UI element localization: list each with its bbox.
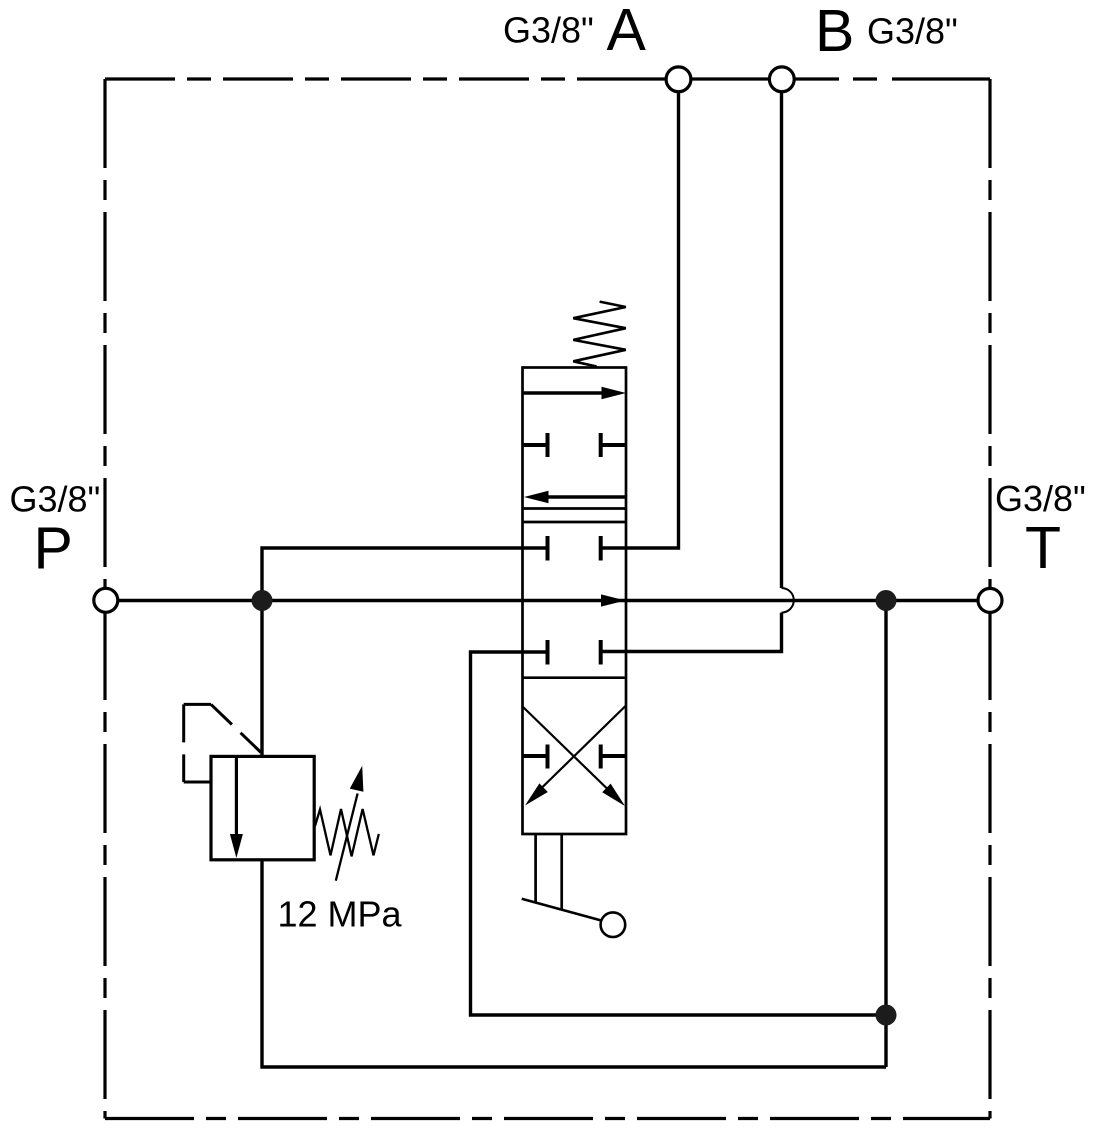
valve position2 through arrow head <box>601 594 626 606</box>
svg-text:G3/8": G3/8" <box>503 10 594 51</box>
directional valve body <box>523 368 627 835</box>
svg-text:A: A <box>607 0 647 63</box>
svg-text:G3/8": G3/8" <box>995 478 1086 519</box>
valve position3 blocked port left <box>523 745 548 769</box>
wire A port down to valve row <box>601 93 679 549</box>
svg-text:T: T <box>1025 515 1061 581</box>
lever shaft left line <box>534 834 537 902</box>
enclosure border right side <box>988 79 991 1119</box>
valve position2 blocked port bars row B <box>548 640 601 665</box>
relief valve body <box>211 756 314 859</box>
relief valve pilot dashed line bottom <box>184 781 210 784</box>
valve position1 arrow left shaft <box>547 495 626 498</box>
relief valve pilot dashed line vertical <box>182 704 185 782</box>
valve position3 blocked port right <box>601 745 626 769</box>
valve position3 cross diagonal to left shaft <box>541 706 626 789</box>
wire hop over main line <box>782 588 794 613</box>
junction dot at T branch <box>876 590 897 611</box>
wire B below hop to valve row <box>601 613 782 652</box>
relief valve flow arrow head <box>230 834 243 858</box>
valve position1 blocked port right <box>601 433 626 457</box>
wire P to T main line <box>119 599 977 602</box>
junction dot at tank drain <box>876 1005 897 1026</box>
wire P junction up-branch to valve <box>262 548 548 601</box>
junction dot at P branch <box>252 590 273 611</box>
enclosure border left side <box>103 79 106 1119</box>
valve position1 blocked port left <box>523 433 548 457</box>
valve position1 arrow left head <box>524 491 549 503</box>
valve position2 blocked port bars row A <box>548 536 601 561</box>
enclosure border top solid segment between A and B <box>600 77 839 80</box>
svg-text:12 MPa: 12 MPa <box>278 893 403 934</box>
relief valve adjustment arrow head <box>350 766 364 792</box>
svg-text:B: B <box>815 0 854 64</box>
svg-text:G3/8": G3/8" <box>10 479 101 520</box>
enclosure border top-left segment <box>105 77 600 80</box>
enclosure border top-right segment <box>853 77 990 80</box>
port B circle <box>769 67 794 92</box>
valve section divider 2 <box>523 676 627 679</box>
wire valve drain to tank line <box>471 652 887 1015</box>
relief valve pilot dashed line diagonal <box>211 704 261 752</box>
svg-text:G3/8": G3/8" <box>867 11 958 52</box>
relief valve flow arrow shaft <box>235 756 238 838</box>
port A circle <box>666 67 691 92</box>
relief valve spring <box>315 809 379 856</box>
valve position1 arrow right shaft <box>523 391 604 394</box>
port T circle <box>978 588 1002 612</box>
enclosure border bottom side <box>105 1117 990 1120</box>
lever knob <box>601 912 626 937</box>
valve return spring <box>573 302 626 367</box>
valve position3 cross arrow left head <box>525 783 548 805</box>
relief valve adjustment arrow shaft <box>336 794 358 881</box>
valve position3 cross diagonal to right shaft <box>523 707 608 790</box>
wire B port down to hop <box>780 93 783 589</box>
relief valve pilot dashed line top <box>184 703 211 706</box>
wire P junction down to relief valve <box>260 601 263 757</box>
wire relief valve drain to tank <box>262 860 886 1067</box>
lever shaft right line <box>560 834 563 909</box>
valve position1 arrow right head <box>602 387 627 399</box>
valve section divider upper extra line <box>523 507 627 510</box>
valve position3 cross arrow right head <box>602 784 625 806</box>
wire T junction down branch <box>884 601 887 1068</box>
lever handle line <box>522 899 601 921</box>
valve section divider 1 <box>523 521 627 524</box>
svg-text:P: P <box>34 515 73 581</box>
port P circle <box>94 588 118 612</box>
